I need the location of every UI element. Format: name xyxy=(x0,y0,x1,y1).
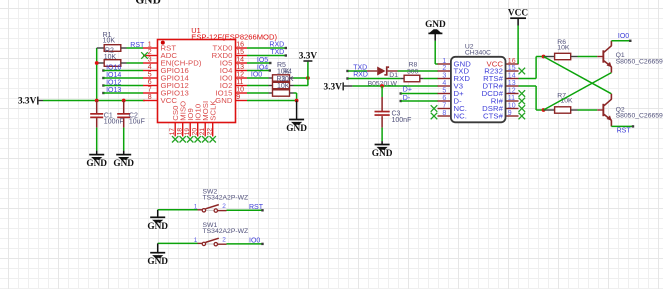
svg-text:3.3V: 3.3V xyxy=(18,97,37,107)
svg-text:8: 8 xyxy=(148,94,152,101)
svg-text:10uF: 10uF xyxy=(129,119,145,126)
svg-text:14: 14 xyxy=(508,72,516,79)
svg-text:GND: GND xyxy=(372,149,393,159)
svg-text:RXD: RXD xyxy=(269,41,284,48)
svg-text:RST: RST xyxy=(130,42,145,49)
svg-text:16: 16 xyxy=(508,58,516,65)
svg-text:11: 11 xyxy=(236,79,243,86)
svg-text:SCLK: SCLK xyxy=(209,100,218,121)
svg-text:TXD: TXD xyxy=(270,49,284,56)
svg-text:10: 10 xyxy=(236,87,244,94)
svg-text:21: 21 xyxy=(199,128,206,136)
svg-text:D-: D- xyxy=(403,95,411,102)
svg-text:IO0: IO0 xyxy=(251,71,262,78)
svg-text:10K: 10K xyxy=(557,45,570,52)
svg-text:300: 300 xyxy=(407,69,419,76)
svg-text:10K: 10K xyxy=(561,98,574,105)
svg-text:TS342A2P-WZ: TS342A2P-WZ xyxy=(203,195,249,202)
svg-text:GND: GND xyxy=(86,159,107,169)
svg-text:3: 3 xyxy=(442,72,446,79)
svg-text:2: 2 xyxy=(148,49,152,56)
svg-text:9: 9 xyxy=(236,94,240,101)
svg-text:TS342A2P-WZ: TS342A2P-WZ xyxy=(203,228,249,235)
svg-text:13: 13 xyxy=(508,80,516,87)
svg-text:8: 8 xyxy=(442,110,446,117)
svg-text:10K: 10K xyxy=(103,38,116,45)
svg-text:CH340C: CH340C xyxy=(465,50,491,57)
svg-text:GND: GND xyxy=(425,20,446,30)
svg-text:5: 5 xyxy=(442,87,446,94)
svg-text:16: 16 xyxy=(236,42,244,49)
svg-text:19: 19 xyxy=(184,128,191,136)
svg-text:1: 1 xyxy=(194,203,198,210)
svg-text:RST: RST xyxy=(249,204,264,211)
svg-text:IO0: IO0 xyxy=(618,33,629,40)
svg-text:2: 2 xyxy=(222,236,226,243)
svg-text:3: 3 xyxy=(148,57,152,64)
svg-text:CTS#: CTS# xyxy=(483,112,504,121)
svg-text:R4: R4 xyxy=(283,69,292,76)
svg-text:15: 15 xyxy=(236,49,244,56)
svg-text:6: 6 xyxy=(148,79,152,86)
svg-text:IO4: IO4 xyxy=(257,64,268,71)
svg-text:GND: GND xyxy=(147,257,168,267)
svg-text:10K: 10K xyxy=(104,54,117,61)
svg-text:R8: R8 xyxy=(409,61,418,68)
svg-text:13: 13 xyxy=(236,64,244,71)
svg-text:2: 2 xyxy=(442,65,446,72)
svg-text:IO14: IO14 xyxy=(106,72,121,79)
svg-text:9: 9 xyxy=(508,110,512,117)
svg-text:VCC: VCC xyxy=(161,96,178,105)
svg-text:15: 15 xyxy=(508,65,516,72)
svg-text:10K: 10K xyxy=(277,83,290,90)
svg-text:IO12: IO12 xyxy=(106,80,121,87)
svg-text:4: 4 xyxy=(148,64,152,71)
svg-text:IO16: IO16 xyxy=(106,65,121,72)
svg-text:100nF: 100nF xyxy=(392,117,412,124)
svg-text:IO13: IO13 xyxy=(106,87,121,94)
svg-text:12: 12 xyxy=(236,72,244,79)
svg-text:GND: GND xyxy=(147,222,168,232)
svg-text:RXD: RXD xyxy=(353,72,368,79)
svg-text:3.3V: 3.3V xyxy=(299,52,318,62)
svg-text:NC.: NC. xyxy=(454,112,468,121)
svg-text:1: 1 xyxy=(148,42,152,49)
svg-text:10: 10 xyxy=(508,102,516,109)
svg-text:22: 22 xyxy=(207,128,214,136)
svg-text:18: 18 xyxy=(177,128,184,136)
svg-text:10K: 10K xyxy=(281,76,294,83)
svg-text:3.3V: 3.3V xyxy=(324,82,343,92)
svg-text:GND: GND xyxy=(286,124,307,134)
svg-text:ESP-12F(ESP8266MOD): ESP-12F(ESP8266MOD) xyxy=(191,32,277,41)
svg-text:GND: GND xyxy=(113,159,134,169)
svg-text:TXD: TXD xyxy=(353,64,367,71)
svg-text:GND: GND xyxy=(135,0,161,6)
svg-text:RST: RST xyxy=(617,127,632,134)
svg-text:4: 4 xyxy=(442,80,446,87)
svg-text:12: 12 xyxy=(508,87,516,94)
svg-text:VCC: VCC xyxy=(508,9,528,19)
svg-text:6: 6 xyxy=(442,95,446,102)
svg-text:5: 5 xyxy=(148,72,152,79)
svg-text:2: 2 xyxy=(222,203,226,210)
svg-text:S8050_C26659: S8050_C26659 xyxy=(616,113,663,120)
svg-text:100nF: 100nF xyxy=(104,119,124,126)
svg-text:7: 7 xyxy=(148,87,152,94)
svg-text:14: 14 xyxy=(236,57,244,64)
svg-text:1: 1 xyxy=(442,58,446,65)
svg-text:20: 20 xyxy=(192,128,199,136)
svg-text:17: 17 xyxy=(169,128,176,136)
svg-text:S8050_C26659: S8050_C26659 xyxy=(616,58,663,65)
svg-text:GND: GND xyxy=(215,96,233,105)
svg-text:11: 11 xyxy=(508,95,515,102)
svg-text:D+: D+ xyxy=(403,87,412,94)
svg-text:IO0: IO0 xyxy=(249,238,260,245)
svg-text:1: 1 xyxy=(194,237,198,244)
svg-text:7: 7 xyxy=(442,102,446,109)
svg-text:IO5: IO5 xyxy=(257,57,268,64)
